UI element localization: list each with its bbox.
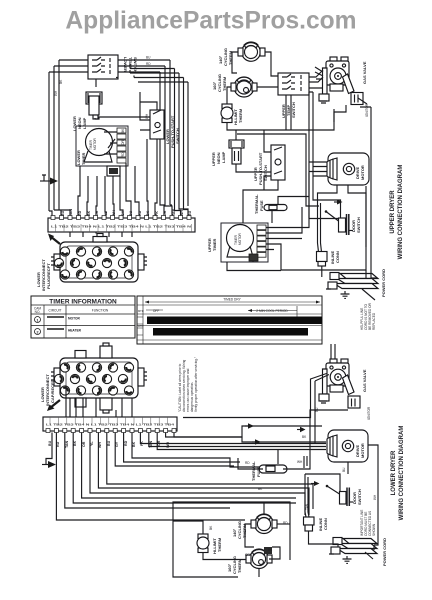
svg-text:AppliancePartsPros.com: AppliancePartsPros.com [65,8,356,35]
svg-text:RD: RD [283,521,288,525]
svg-text:WH: WH [145,113,149,119]
svg-text:PLUG/RECPT: PLUG/RECPT [46,263,51,289]
svg-text:MOTOR: MOTOR [93,137,97,150]
svg-text:OFF: OFF [153,309,159,313]
svg-text:CIRCUIT: CIRCUIT [49,309,62,313]
svg-text:THERM: THERM [222,76,227,91]
svg-text:WIRING CONNECTION DIAGRAM: WIRING CONNECTION DIAGRAM [399,426,405,521]
svg-text:THERM: THERM [217,537,222,552]
svg-text:WH: WH [54,90,58,96]
svg-text:LAMP: LAMP [221,151,226,163]
svg-text:FUNCTION: FUNCTION [92,309,109,313]
svg-text:THERM: THERM [237,558,242,573]
svg-text:YL: YL [90,441,94,446]
svg-text:MOTOR: MOTOR [360,165,365,180]
svg-text:TIMER: TIMER [81,152,86,165]
svg-text:L1 TB2 TB3 TB4 N L1 TB2 TB3 TB: L1 TB2 TB3 TB4 N L1 TB2 TB3 TB4 N L1 TB2… [46,423,175,427]
svg-text:RD: RD [146,62,151,66]
svg-text:TIMER INFORMATION: TIMER INFORMATION [49,299,117,306]
svg-text:LAMP: LAMP [82,117,87,129]
svg-text:OR: OR [82,441,86,447]
svg-text:REPLACED: REPLACED [372,312,376,330]
svg-text:SHOWN: SHOWN [372,523,376,536]
svg-text:BU: BU [342,467,346,472]
svg-text:GY: GY [121,210,125,216]
svg-text:MTR: MTR [138,309,144,313]
svg-text:MOTOR: MOTOR [68,317,81,321]
svg-text:BK: BK [132,441,136,447]
svg-text:SWITCH: SWITCH [357,489,362,505]
svg-text:RD: RD [124,440,128,446]
svg-text:MOTOR: MOTOR [360,443,365,458]
svg-text:LOWER: LOWER [123,57,128,72]
svg-text:OR: OR [121,140,125,145]
svg-text:WH: WH [180,210,184,216]
svg-text:OR: OR [245,553,250,557]
svg-text:RD: RD [245,461,250,465]
svg-text:TIMED DRY: TIMED DRY [223,298,241,302]
svg-text:WIRING CONNECTION DIAGRAM: WIRING CONNECTION DIAGRAM [398,165,404,260]
svg-text:THERM: THERM [238,108,243,123]
svg-text:TAN: TAN [65,440,69,448]
svg-text:SWITCH: SWITCH [175,128,180,144]
svg-text:RD: RD [121,152,125,157]
svg-text:TAN: TAN [172,208,176,216]
svg-text:WH: WH [112,210,116,216]
svg-text:BU: BU [146,56,151,60]
svg-text:SWITCH: SWITCH [356,217,361,233]
svg-text:LOWER DRYER: LOWER DRYER [391,450,397,495]
svg-text:MOTOR: MOTOR [238,232,242,245]
svg-text:BU: BU [107,440,111,446]
svg-text:POWER CORD: POWER CORD [381,269,386,297]
svg-text:POWER CORD: POWER CORD [382,538,387,566]
svg-text:HTR: HTR [138,324,143,328]
svg-text:TIMER: TIMER [212,238,217,251]
svg-text:FUSE: FUSE [259,200,264,211]
svg-text:UPPER DRYER: UPPER DRYER [390,190,396,234]
svg-text:IGNITOR: IGNITOR [365,103,369,117]
svg-text:L1 TB2 TB3 TB4 N L1 TB2 TB3 T: L1 TB2 TB3 TB4 N L1 TB2 TB3 TB4 N L1 TB2… [51,225,191,229]
svg-text:CAP/RECPT: CAP/RECPT [50,379,55,403]
svg-text:CONN: CONN [335,251,340,263]
svg-text:SWITCH: SWITCH [291,102,296,118]
svg-text:OR: OR [95,210,99,216]
svg-text:TAN: TAN [69,208,73,216]
svg-text:TAN: TAN [305,503,309,510]
svg-text:HEATER: HEATER [68,329,82,333]
svg-text:Verify proper operation after: Verify proper operation after servicing.… [194,357,198,412]
svg-text:WH: WH [373,494,377,500]
svg-text:OR: OR [163,210,167,216]
svg-text:2 MIN COOL PERIOD: 2 MIN COOL PERIOD [256,309,288,313]
svg-text:SWITCH: SWITCH [133,57,138,73]
svg-text:CONN: CONN [323,518,328,530]
svg-text:GAS VALVE: GAS VALVE [362,369,367,392]
svg-text:IGNITOR: IGNITOR [367,406,371,420]
svg-text:WH: WH [297,460,303,464]
svg-text:GAS VALVE: GAS VALVE [362,61,367,84]
svg-text:NO.: NO. [35,310,41,314]
svg-text:BU: BU [48,440,52,446]
svg-text:BU: BU [315,407,319,412]
svg-text:FUSE: FUSE [256,466,261,477]
